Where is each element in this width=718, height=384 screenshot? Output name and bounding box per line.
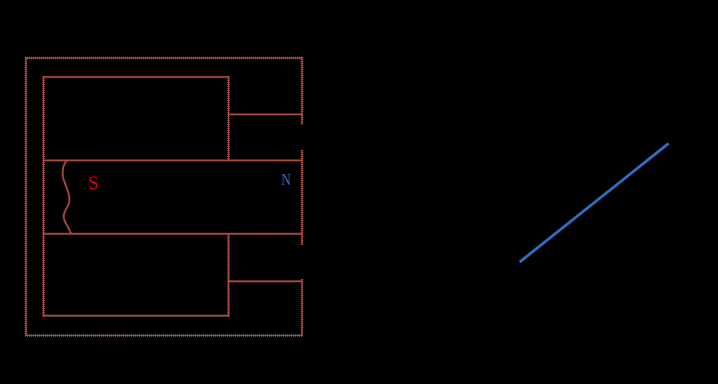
wire: bottom window bottom edge	[44, 315, 229, 317]
curve: demagnetization load line	[520, 143, 669, 262]
wire: yoke outer right edge lower segment	[301, 279, 303, 336]
wire: bottom window right edge	[228, 234, 230, 317]
wire: yoke outer left edge	[25, 57, 27, 336]
wire: magnet top edge	[44, 159, 303, 161]
svg-text:N: N	[281, 170, 291, 189]
wire: upper air-gap pole face line	[229, 113, 303, 115]
wire: yoke outer top edge	[25, 57, 302, 59]
svg-text:S: S	[88, 174, 98, 194]
wire: inner left edge	[43, 76, 45, 317]
wire: top window top edge	[44, 76, 229, 78]
wire: magnet break squiggle	[63, 160, 71, 233]
wire: yoke outer right edge middle segment	[301, 150, 303, 245]
wire: yoke outer right edge upper segment	[301, 57, 303, 125]
wire: lower air-gap pole face line	[229, 280, 303, 282]
wire: top window right edge	[228, 76, 230, 160]
wire: magnet bottom edge	[44, 233, 303, 235]
wire: yoke outer bottom edge	[25, 335, 302, 337]
